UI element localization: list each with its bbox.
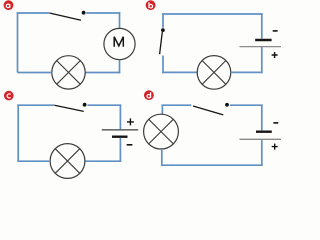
battery long plate + (b) <box>240 46 282 48</box>
plus sign (c) <box>127 118 134 125</box>
wire: c top-right segment <box>88 104 122 106</box>
wire: d left side upper <box>161 104 163 114</box>
switch lever (b) <box>160 32 163 54</box>
switch contact dot (d) <box>225 103 229 107</box>
switch lever (c) <box>55 105 84 111</box>
wire: a top-left segment <box>17 12 50 14</box>
lamp (c) <box>50 144 85 179</box>
wire: c right side upper <box>119 104 121 129</box>
battery short plate - (d) <box>256 130 272 132</box>
minus sign (c) <box>127 144 133 146</box>
wire: b left side upper <box>162 13 164 28</box>
wire: d top-right segment <box>230 104 263 106</box>
wire: c left side <box>17 104 19 162</box>
wire: d right side lower <box>261 140 263 166</box>
wire: c bottom-right segment <box>85 160 121 162</box>
wire: d top-left segment <box>162 104 192 106</box>
label c <box>4 91 14 101</box>
switch lever (a) <box>50 13 81 20</box>
wire: c top-left segment <box>17 104 54 106</box>
wire: b left side lower <box>162 56 164 74</box>
switch contact dot (a) <box>82 11 86 15</box>
wire: d bottom side <box>161 164 263 166</box>
wire: b bottom-right segment <box>231 71 263 73</box>
battery short plate - (b) <box>255 39 271 41</box>
wire: d left side lower <box>161 149 163 166</box>
lamp (b) <box>197 56 231 90</box>
wire: c bottom-left segment <box>18 160 50 162</box>
wire: b bottom-left segment <box>162 71 197 73</box>
label d <box>144 90 154 100</box>
wire: b top side <box>162 13 262 15</box>
wire: b right side upper <box>261 13 263 38</box>
battery long plate + (c) <box>102 129 139 131</box>
label a <box>4 0 14 10</box>
minus sign (b) <box>273 30 278 32</box>
wire: a left side <box>17 12 19 72</box>
wire: a bottom-left segment <box>18 72 52 74</box>
wire: d right side upper <box>261 104 263 130</box>
battery long plate + (d) <box>240 138 282 140</box>
wire: a right side lower <box>119 60 121 74</box>
plus sign (b) <box>272 52 278 58</box>
lamp (d) <box>144 114 179 149</box>
wire: a bottom-right segment <box>85 72 120 74</box>
wire: c right side lower <box>119 138 121 162</box>
lamp (a) <box>52 56 85 89</box>
plus sign (d) <box>272 144 278 150</box>
wire: a right side upper <box>119 12 121 28</box>
wire: b right side lower <box>261 47 263 73</box>
switch contact dot (b) <box>161 28 165 32</box>
switch contact dot (c) <box>83 103 87 107</box>
motor M (a) <box>104 28 135 59</box>
battery short plate - (c) <box>112 135 128 137</box>
label b <box>146 0 156 10</box>
wire: a top-right segment <box>86 12 120 14</box>
switch lever (d) <box>193 106 223 115</box>
minus sign (d) <box>273 122 278 124</box>
